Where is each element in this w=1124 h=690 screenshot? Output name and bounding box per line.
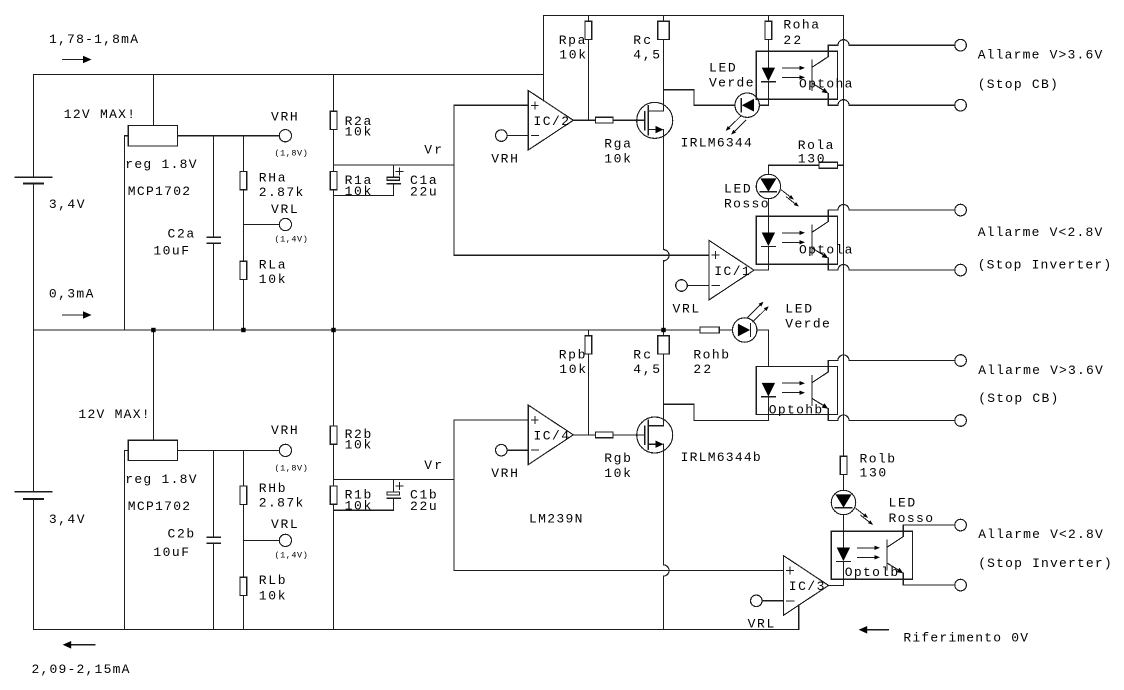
- svg-text:Rpb: Rpb: [559, 348, 586, 363]
- svg-text:Roha: Roha: [783, 18, 819, 33]
- svg-text:130: 130: [798, 151, 825, 166]
- svg-text:(Stop Inverter): (Stop Inverter): [978, 257, 1111, 272]
- svg-text:10k: 10k: [259, 589, 286, 604]
- svg-text:10k: 10k: [345, 184, 372, 199]
- svg-text:10k: 10k: [559, 362, 586, 377]
- svg-text:Rosso: Rosso: [889, 511, 934, 526]
- svg-text:(1,8V): (1,8V): [275, 149, 308, 159]
- svg-text:12V MAX!: 12V MAX!: [64, 107, 135, 122]
- svg-text:10k: 10k: [345, 438, 372, 453]
- svg-text:Allarme V<2.8V: Allarme V<2.8V: [978, 225, 1103, 240]
- svg-text:10uF: 10uF: [153, 545, 189, 560]
- svg-text:VRH: VRH: [491, 152, 518, 167]
- svg-text:LED: LED: [709, 60, 736, 75]
- svg-text:(Stop CB): (Stop CB): [978, 77, 1058, 92]
- svg-text:LED: LED: [785, 301, 812, 316]
- svg-text:10k: 10k: [604, 152, 631, 167]
- svg-text:4,5: 4,5: [633, 362, 660, 377]
- svg-text:IC/2: IC/2: [534, 114, 570, 129]
- svg-text:Allarme V>3.6V: Allarme V>3.6V: [978, 363, 1103, 378]
- svg-text:10k: 10k: [559, 47, 586, 62]
- svg-text:VRH: VRH: [491, 466, 518, 481]
- svg-text:Rolb: Rolb: [860, 452, 896, 467]
- svg-text:12V MAX!: 12V MAX!: [78, 407, 149, 422]
- svg-text:Rohb: Rohb: [693, 348, 729, 363]
- svg-text:22u: 22u: [410, 499, 437, 514]
- svg-text:LED: LED: [724, 182, 751, 197]
- svg-text:IRLM6344: IRLM6344: [681, 135, 752, 150]
- svg-text:(Stop CB): (Stop CB): [978, 391, 1058, 406]
- svg-text:2.87k: 2.87k: [259, 496, 304, 511]
- svg-text:0,3mA: 0,3mA: [49, 287, 94, 302]
- svg-text:VRL: VRL: [748, 617, 775, 632]
- svg-text:4,5: 4,5: [633, 47, 660, 62]
- svg-text:VRL: VRL: [271, 517, 298, 532]
- svg-text:Allarme V>3.6V: Allarme V>3.6V: [978, 47, 1103, 62]
- svg-text:RHa: RHa: [259, 171, 286, 186]
- svg-text:RLb: RLb: [259, 573, 286, 588]
- svg-text:(1,8V): (1,8V): [275, 464, 308, 474]
- svg-text:(1,4V): (1,4V): [275, 551, 308, 561]
- svg-text:VRL: VRL: [673, 302, 700, 317]
- svg-text:Rga: Rga: [604, 137, 631, 152]
- svg-text:10k: 10k: [345, 125, 372, 140]
- svg-text:(1,4V): (1,4V): [275, 235, 308, 245]
- svg-text:2.87k: 2.87k: [259, 185, 304, 200]
- svg-text:3,4V: 3,4V: [49, 512, 85, 527]
- svg-text:(Stop Inverter): (Stop Inverter): [978, 556, 1111, 571]
- svg-text:10k: 10k: [604, 466, 631, 481]
- svg-text:MCP1702: MCP1702: [128, 499, 190, 514]
- svg-text:VRH: VRH: [271, 423, 298, 438]
- svg-text:RLa: RLa: [259, 257, 286, 272]
- svg-text:10k: 10k: [259, 272, 286, 287]
- svg-text:3,4V: 3,4V: [49, 197, 85, 212]
- svg-text:IC/3: IC/3: [789, 579, 825, 594]
- svg-text:Rgb: Rgb: [604, 451, 631, 466]
- svg-text:130: 130: [860, 466, 887, 481]
- svg-text:22u: 22u: [410, 184, 437, 199]
- svg-text:reg 1.8V: reg 1.8V: [125, 157, 196, 172]
- svg-text:MCP1702: MCP1702: [128, 184, 190, 199]
- svg-text:Verde: Verde: [785, 316, 830, 331]
- svg-text:C2a: C2a: [168, 227, 195, 242]
- svg-text:Rosso: Rosso: [724, 197, 769, 212]
- svg-text:Allarme V<2.8V: Allarme V<2.8V: [978, 527, 1103, 542]
- svg-text:Rpa: Rpa: [559, 33, 586, 48]
- svg-text:RHb: RHb: [259, 481, 286, 496]
- svg-text:IC/1: IC/1: [714, 264, 750, 279]
- svg-text:2,09-2,15mA: 2,09-2,15mA: [32, 662, 130, 677]
- svg-text:IC/4: IC/4: [534, 429, 570, 444]
- svg-text:1,78-1,8mA: 1,78-1,8mA: [49, 32, 138, 47]
- svg-text:C2b: C2b: [168, 527, 195, 542]
- svg-text:IRLM6344b: IRLM6344b: [681, 450, 761, 465]
- svg-text:VRH: VRH: [271, 109, 298, 124]
- svg-text:10uF: 10uF: [153, 244, 189, 259]
- svg-text:reg 1.8V: reg 1.8V: [125, 472, 196, 487]
- svg-text:VRL: VRL: [271, 202, 298, 217]
- svg-text:Verde: Verde: [709, 75, 754, 90]
- svg-text:Riferimento 0V: Riferimento 0V: [903, 631, 1028, 646]
- svg-text:LED: LED: [889, 496, 916, 511]
- svg-text:10k: 10k: [345, 498, 372, 513]
